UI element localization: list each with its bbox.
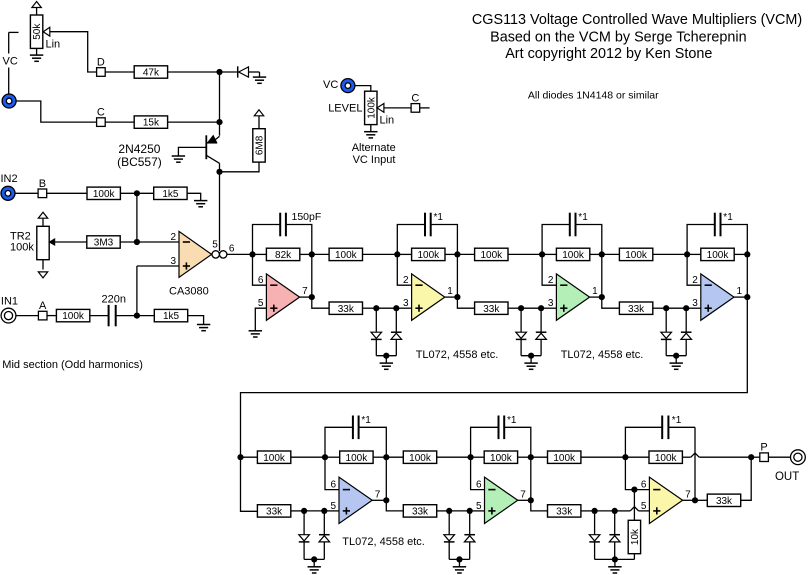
svg-text:C: C [411, 92, 419, 104]
svg-text:Based on the VCM by Serge Tche: Based on the VCM by Serge Tcherepnin [490, 29, 747, 45]
svg-text:47k: 47k [143, 68, 160, 79]
svg-text:VC: VC [323, 79, 338, 91]
svg-text:Lin: Lin [380, 115, 395, 127]
svg-text:100k: 100k [10, 242, 34, 254]
svg-text:TL072, 4558 etc.: TL072, 4558 etc. [416, 349, 499, 361]
svg-text:3M3: 3M3 [94, 238, 114, 249]
svg-text:*1: *1 [672, 415, 682, 426]
svg-text:(BC557): (BC557) [117, 155, 162, 169]
svg-text:82k: 82k [275, 250, 292, 261]
svg-text:Art copyright 2012 by Ken Ston: Art copyright 2012 by Ken Stone [505, 46, 712, 62]
svg-text:33k: 33k [716, 496, 733, 507]
svg-text:100k: 100k [62, 311, 85, 322]
svg-text:CA3080: CA3080 [169, 286, 209, 298]
svg-text:2: 2 [692, 275, 698, 286]
svg-text:5: 5 [330, 501, 336, 512]
svg-text:*1: *1 [361, 415, 371, 426]
svg-text:1: 1 [737, 286, 743, 297]
svg-text:CGS113 Voltage Controlled Wave: CGS113 Voltage Controlled Wave Multiplie… [472, 12, 802, 28]
svg-text:7: 7 [302, 286, 308, 297]
svg-text:33k: 33k [628, 304, 645, 315]
svg-text:3: 3 [548, 298, 554, 309]
svg-text:7: 7 [520, 489, 526, 500]
svg-text:TL072, 4558 etc.: TL072, 4558 etc. [561, 349, 644, 361]
svg-text:100k: 100k [366, 96, 377, 119]
svg-text:2: 2 [548, 275, 554, 286]
svg-text:100k: 100k [562, 250, 585, 261]
svg-text:All diodes 1N4148 or similar: All diodes 1N4148 or similar [528, 90, 659, 102]
svg-text:6M8: 6M8 [255, 135, 266, 155]
svg-text:6: 6 [229, 243, 235, 254]
svg-text:IN1: IN1 [1, 295, 18, 307]
svg-text:100k: 100k [480, 250, 503, 261]
svg-text:*1: *1 [507, 415, 517, 426]
svg-text:7: 7 [375, 489, 381, 500]
svg-text:2: 2 [170, 232, 176, 243]
svg-text:*1: *1 [578, 212, 588, 223]
svg-text:33k: 33k [556, 507, 573, 518]
svg-text:*1: *1 [723, 212, 733, 223]
svg-text:6: 6 [258, 275, 264, 286]
svg-text:33k: 33k [412, 507, 429, 518]
svg-text:5: 5 [641, 501, 647, 512]
svg-text:A: A [39, 300, 47, 312]
svg-text:P: P [760, 442, 767, 454]
svg-text:VC Input: VC Input [353, 154, 396, 166]
svg-text:50k: 50k [32, 23, 43, 40]
svg-text:TL072, 4558 etc.: TL072, 4558 etc. [342, 536, 425, 548]
svg-text:100k: 100k [625, 250, 648, 261]
svg-text:100k: 100k [707, 250, 730, 261]
svg-text:3: 3 [403, 298, 409, 309]
svg-text:1k5: 1k5 [163, 311, 180, 322]
svg-text:100k: 100k [655, 453, 678, 464]
svg-text:3: 3 [692, 298, 698, 309]
svg-text:10k: 10k [630, 528, 641, 545]
svg-text:100k: 100k [490, 453, 513, 464]
svg-text:*1: *1 [434, 212, 444, 223]
svg-text:33k: 33k [266, 507, 283, 518]
svg-text:OUT: OUT [775, 471, 799, 483]
svg-text:VC: VC [3, 56, 18, 68]
svg-text:3: 3 [170, 256, 176, 267]
svg-text:1: 1 [447, 286, 453, 297]
svg-text:B: B [39, 178, 46, 190]
svg-text:33k: 33k [338, 304, 355, 315]
svg-text:LEVEL: LEVEL [328, 103, 362, 115]
svg-text:D: D [97, 57, 105, 69]
svg-text:100k: 100k [346, 453, 369, 464]
svg-text:100k: 100k [417, 250, 440, 261]
svg-text:100k: 100k [263, 453, 286, 464]
svg-text:7: 7 [685, 489, 691, 500]
svg-text:Lin: Lin [46, 39, 61, 51]
svg-text:2: 2 [403, 275, 409, 286]
svg-text:5: 5 [212, 239, 218, 250]
svg-text:220n: 220n [102, 293, 126, 305]
svg-text:100k: 100k [409, 453, 432, 464]
svg-text:6: 6 [641, 480, 647, 491]
svg-text:2N4250: 2N4250 [118, 142, 160, 156]
svg-text:1: 1 [592, 286, 598, 297]
svg-text:6: 6 [330, 480, 336, 491]
svg-text:Mid section (Odd harmonics): Mid section (Odd harmonics) [2, 359, 143, 371]
svg-text:1k5: 1k5 [162, 189, 179, 200]
svg-text:15k: 15k [143, 118, 160, 129]
svg-text:100k: 100k [553, 453, 576, 464]
svg-text:100k: 100k [335, 250, 358, 261]
svg-text:150pF: 150pF [292, 211, 322, 223]
svg-text:33k: 33k [483, 304, 500, 315]
svg-text:100k: 100k [93, 189, 116, 200]
svg-text:Alternate: Alternate [352, 142, 396, 154]
svg-text:C: C [97, 107, 105, 119]
svg-text:IN2: IN2 [1, 173, 18, 185]
svg-text:6: 6 [476, 480, 482, 491]
